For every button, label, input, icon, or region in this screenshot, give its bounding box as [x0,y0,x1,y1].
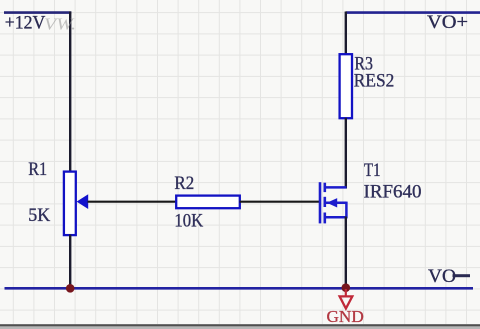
T1 source bar [325,216,347,219]
T1 channel segment top [323,183,326,192]
wire +12V horizontal [4,11,71,14]
wire source to VO- rail [345,217,347,289]
T1 body arrow [327,198,337,207]
R1 wiper arrow [77,194,89,209]
wire R2 to gate [240,201,320,203]
svg-text:VO+: VO+ [427,12,468,33]
svg-text:RES2: RES2 [354,71,395,92]
svg-text:R1: R1 [28,159,47,180]
T1 drain bar [325,186,347,189]
T1 channel segment middle [323,197,326,207]
wire VO- rail [5,287,474,290]
svg-text:10K: 10K [174,210,203,231]
junction dot source/VO- [342,283,351,292]
wire VO+ down to R3 [345,12,347,56]
transistor T1 gate bar [319,182,322,223]
resistor R2 [176,196,240,209]
svg-text:R2: R2 [174,173,194,194]
svg-text:+12V: +12V [5,12,46,33]
svg-text:VO: VO [428,266,456,287]
bottom border dark line [0,324,480,326]
wire VO+ horizontal [346,11,480,14]
junction dot R1/VO- [66,284,75,293]
svg-text:T1: T1 [364,160,381,181]
wire R3 to drain [345,118,347,189]
bottom border light band [0,326,480,329]
wire +12V vertical to R1 [69,12,71,173]
wire wiper to R2 [88,201,178,203]
T1 body bar with arrow [325,202,347,205]
wire R1 bottom lead [69,235,71,289]
resistor R1 (potentiometer body) [64,172,76,236]
ground stub [345,289,347,296]
T1 channel segment bottom [323,213,326,224]
svg-text:IRF640: IRF640 [364,181,422,202]
T1 source-body vertical [345,202,348,219]
resistor R3 [340,54,352,118]
ground symbol triangle [340,296,353,308]
svg-text:VW.: VW. [44,15,76,34]
svg-text:GND: GND [327,307,364,326]
svg-text:5K: 5K [28,205,50,226]
